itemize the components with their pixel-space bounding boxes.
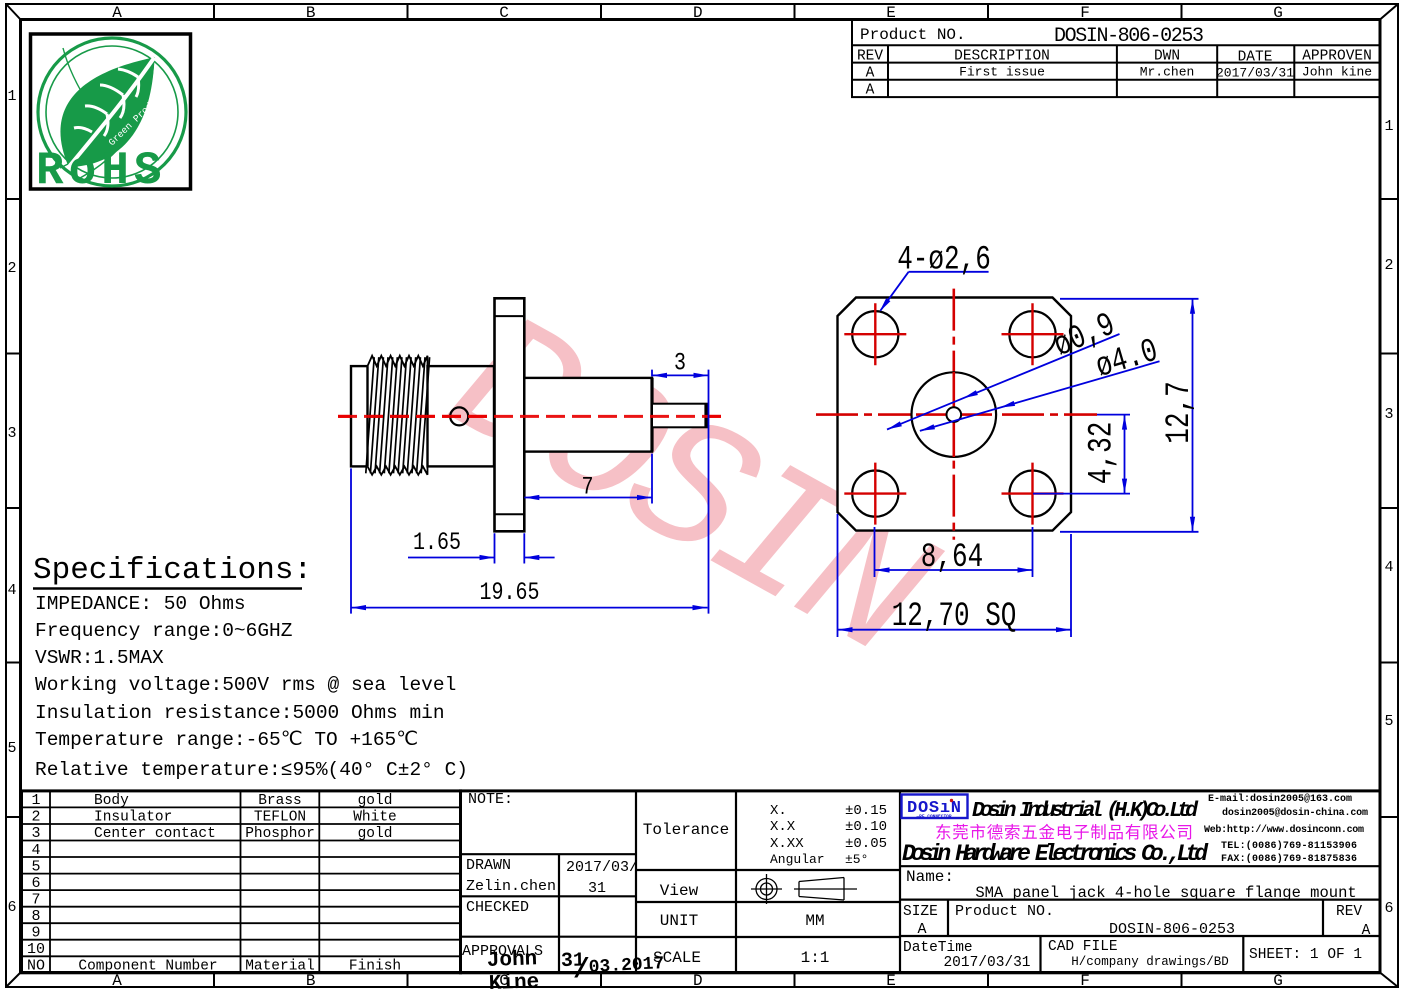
- front view vertical centerline: [952, 289, 955, 540]
- svg-text:3: 3: [7, 425, 16, 442]
- svg-text:A: A: [112, 4, 122, 22]
- front view flange square: [838, 298, 1072, 531]
- svg-text:Dosin Hardware Electronics Co.: Dosin Hardware Electronics Co.,Ltd: [902, 841, 1209, 867]
- svg-text:B: B: [306, 4, 316, 22]
- svg-text:Brass: Brass: [258, 793, 302, 809]
- svg-text:5: 5: [1384, 713, 1393, 730]
- approvals signature John Kine: [486, 948, 664, 996]
- svg-text:3: 3: [1384, 406, 1393, 423]
- svg-text:4: 4: [7, 582, 16, 599]
- svg-text:Component Number: Component Number: [78, 959, 217, 975]
- svg-text:Working voltage:500V rms @ sea: Working voltage:500V rms @ sea level: [35, 674, 456, 696]
- svg-text:±0.15: ±0.15: [845, 803, 887, 819]
- svg-text:NOTE:: NOTE:: [468, 791, 513, 808]
- svg-text:REV: REV: [857, 49, 883, 65]
- svg-text:gold: gold: [358, 793, 393, 809]
- svg-text:Dosin Industrial (H.K)Co.Ltd: Dosin Industrial (H.K)Co.Ltd: [972, 799, 1199, 823]
- dimension 7 (cylinder length): [524, 454, 652, 504]
- svg-text:4: 4: [1384, 559, 1393, 576]
- svg-text:31: 31: [588, 880, 606, 897]
- svg-text:1.65: 1.65: [413, 528, 461, 557]
- front view horizontal centerline: [816, 413, 1097, 416]
- dimension 12,7 (flange height): [1060, 299, 1199, 532]
- svg-text:John: John: [486, 948, 537, 973]
- svg-text:First issue: First issue: [959, 65, 1045, 80]
- side view thread flank hatch lines: [366, 357, 430, 473]
- svg-text:1: 1: [7, 88, 16, 105]
- svg-text:D: D: [693, 972, 703, 990]
- svg-text:Specifications:: Specifications:: [33, 553, 312, 588]
- RoHS logo rings: [38, 38, 186, 186]
- svg-text:5: 5: [31, 858, 40, 875]
- parts list table: [22, 791, 461, 973]
- svg-text:2: 2: [1384, 257, 1393, 274]
- svg-text:Phosphor: Phosphor: [245, 826, 315, 842]
- svg-text:7: 7: [31, 891, 40, 908]
- RoHS logo box: [31, 34, 191, 189]
- svg-text:E: E: [886, 972, 896, 990]
- svg-text:2017/03/: 2017/03/: [566, 859, 638, 876]
- svg-text:±0.10: ±0.10: [845, 819, 887, 835]
- svg-text:FAX:(0086)769-81875836: FAX:(0086)769-81875836: [1221, 853, 1357, 865]
- svg-text:TEFLON: TEFLON: [254, 810, 306, 826]
- svg-text:4-ø2,6: 4-ø2,6: [897, 242, 991, 280]
- svg-text:1:1: 1:1: [801, 949, 830, 967]
- svg-text:Body: Body: [94, 793, 129, 809]
- revision title block: [852, 20, 1380, 97]
- svg-text:Product NO.: Product NO.: [955, 903, 1054, 920]
- svg-text:Finish: Finish: [349, 959, 401, 975]
- svg-text:TEL:(0086)769-81153906: TEL:(0086)769-81153906: [1221, 840, 1357, 852]
- svg-text:Angular: Angular: [770, 852, 825, 867]
- svg-text:±5°: ±5°: [845, 852, 868, 867]
- svg-text:Name:: Name:: [906, 868, 954, 886]
- svg-text:3: 3: [31, 825, 40, 842]
- svg-text:19.65: 19.65: [480, 578, 540, 607]
- svg-text:DOSIN-806-0253: DOSIN-806-0253: [1054, 25, 1204, 48]
- svg-text:DWN: DWN: [1154, 49, 1180, 65]
- side view rear cylinder: [524, 378, 652, 452]
- svg-text:DOSIN-806-0253: DOSIN-806-0253: [1109, 921, 1235, 938]
- svg-text:10: 10: [27, 941, 45, 958]
- watermark DOSIN script: [416, 277, 961, 707]
- svg-text:X.X: X.X: [770, 819, 796, 835]
- svg-text:SMA panel jack 4-hole square f: SMA panel jack 4-hole square flange moun…: [975, 884, 1356, 902]
- svg-text:9: 9: [31, 925, 40, 942]
- side view left end cap: [351, 366, 368, 466]
- RoHS leaf side veins: [74, 69, 139, 136]
- side view centerline overlay: [338, 415, 723, 418]
- side view centerline: [338, 415, 723, 418]
- svg-text:SHEET: 1 OF 1: SHEET: 1 OF 1: [1249, 947, 1362, 963]
- DOSIN logo: [902, 795, 968, 819]
- svg-text:Product NO.: Product NO.: [860, 26, 966, 44]
- svg-text:DRAWN: DRAWN: [466, 857, 511, 874]
- svg-text:6: 6: [1384, 900, 1393, 917]
- RoHS leaf: [60, 57, 154, 167]
- dimension 1.65 (flange thickness): [408, 533, 555, 563]
- third angle projection symbol: [751, 874, 857, 904]
- svg-text:A: A: [917, 921, 926, 938]
- svg-text:Zelin.chen: Zelin.chen: [466, 878, 556, 895]
- dimension 8,64 (hole spacing): [875, 527, 1033, 577]
- mounting hole 1: [852, 311, 898, 357]
- side view center pin: [652, 404, 708, 428]
- svg-text:/: /: [573, 955, 590, 986]
- svg-text:Mr.chen: Mr.chen: [1140, 65, 1195, 80]
- svg-text:DateTime: DateTime: [903, 940, 973, 956]
- dimension 12,70 SQ (flange width): [838, 514, 1072, 637]
- svg-text:gold: gold: [358, 826, 393, 842]
- RoHS logo inner arcs: [60, 48, 154, 178]
- svg-text:dosin2005@dosin-china.com: dosin2005@dosin-china.com: [1222, 807, 1368, 819]
- zone tick marks left/right: [6, 199, 1398, 817]
- svg-text:Material: Material: [245, 959, 315, 975]
- svg-text:Kine: Kine: [488, 971, 539, 992]
- svg-text:D: D: [693, 4, 703, 22]
- front view body circle: [912, 372, 997, 457]
- side view solder hole: [450, 407, 468, 425]
- svg-text:DESCRIPTION: DESCRIPTION: [954, 49, 1050, 65]
- svg-text:APPROVEN: APPROVEN: [1302, 49, 1372, 65]
- svg-text:4,32: 4,32: [1084, 422, 1122, 484]
- svg-text:X.XX: X.XX: [770, 836, 804, 852]
- side view thread crests: [368, 356, 428, 366]
- dimension 19.65 (overall length): [351, 468, 708, 613]
- mounting hole 2: [1009, 311, 1055, 357]
- svg-text:Insulator: Insulator: [94, 810, 172, 826]
- title block bottom: frame: [461, 791, 1381, 973]
- svg-text:Relative temperature:≤95%(40°: Relative temperature:≤95%(40° C±2° C): [35, 759, 468, 781]
- svg-text:REV: REV: [1336, 904, 1362, 920]
- svg-text:A: A: [1362, 923, 1371, 939]
- svg-text:H/company drawings/BD: H/company drawings/BD: [1071, 955, 1229, 969]
- svg-text:C: C: [499, 4, 509, 22]
- svg-text:2: 2: [7, 260, 16, 277]
- svg-text:SIZE: SIZE: [903, 904, 938, 920]
- svg-text:A: A: [866, 83, 875, 99]
- svg-text:E-mail:dosin2005@163.com: E-mail:dosin2005@163.com: [1208, 793, 1352, 805]
- dimension 3 (pin length): [652, 370, 709, 614]
- svg-text:CAD FILE: CAD FILE: [1048, 939, 1118, 955]
- svg-text:View: View: [660, 882, 699, 900]
- RoHS leaf main vein: [69, 57, 155, 167]
- side view flange plate: [495, 298, 525, 531]
- svg-text:John kine: John kine: [1302, 65, 1372, 80]
- svg-text:CHECKED: CHECKED: [466, 899, 529, 916]
- svg-text:4: 4: [31, 842, 40, 859]
- svg-text:A: A: [112, 972, 122, 990]
- svg-text:F: F: [1080, 972, 1090, 990]
- svg-text:IMPEDANCE: 50 Ohms: IMPEDANCE: 50 Ohms: [35, 593, 246, 615]
- side view hex body: [428, 366, 495, 466]
- label 4-diam 2,6 with leader: [881, 272, 989, 311]
- svg-text:MM: MM: [805, 912, 824, 930]
- svg-text:东莞市德索五金电子制品有限公司: 东莞市德索五金电子制品有限公司: [935, 823, 1193, 843]
- label diam 4.0 with leader: [920, 361, 1160, 431]
- svg-text:Web:http://www.dosinconn.com: Web:http://www.dosinconn.com: [1204, 824, 1364, 836]
- mounting hole 4: [1009, 471, 1055, 517]
- svg-text:A: A: [866, 66, 875, 82]
- svg-text:Tolerance: Tolerance: [643, 821, 729, 839]
- svg-text:X.: X.: [770, 803, 787, 819]
- svg-text:2: 2: [31, 809, 40, 826]
- svg-text:1: 1: [1384, 118, 1393, 135]
- svg-text:2017/03/31: 2017/03/31: [1216, 66, 1294, 81]
- svg-text:3: 3: [674, 349, 686, 378]
- mounting hole 3: [852, 471, 898, 517]
- svg-text:UNIT: UNIT: [660, 912, 698, 930]
- svg-text:±0.05: ±0.05: [845, 836, 887, 852]
- svg-text:8,64: 8,64: [921, 539, 983, 577]
- svg-text:SCALE: SCALE: [653, 949, 701, 967]
- svg-text:G: G: [1273, 972, 1283, 990]
- svg-text:6: 6: [31, 875, 40, 892]
- svg-text:8: 8: [31, 908, 40, 925]
- svg-text:White: White: [353, 810, 397, 826]
- svg-text:2017/03/31: 2017/03/31: [943, 955, 1030, 971]
- company contacts: [1204, 793, 1368, 865]
- svg-text:7: 7: [582, 473, 594, 502]
- svg-text:DATE: DATE: [1238, 50, 1273, 66]
- front view pin circle: [947, 407, 962, 422]
- svg-text:—RF CONNECTOR: —RF CONNECTOR: [915, 814, 951, 820]
- label diam 0,9 with leader: [887, 334, 1120, 430]
- svg-text:Center contact: Center contact: [94, 826, 216, 842]
- svg-text:Frequency range:0~6GHZ: Frequency range:0~6GHZ: [35, 620, 292, 642]
- front view vertical centerline inner: [952, 372, 955, 457]
- svg-text:5: 5: [7, 740, 16, 757]
- svg-text:1: 1: [31, 792, 40, 809]
- svg-text:6: 6: [7, 899, 16, 916]
- svg-text:B: B: [306, 972, 316, 990]
- zone tick marks top/bottom: [214, 4, 1182, 987]
- svg-text:Insulation resistance:5000 Ohm: Insulation resistance:5000 Ohms min: [35, 702, 445, 724]
- svg-text:NO: NO: [27, 958, 45, 975]
- svg-text:12,70 SQ: 12,70 SQ: [892, 598, 1017, 636]
- svg-text:Temperature range:-65℃ TO +165: Temperature range:-65℃ TO +165℃: [35, 729, 418, 751]
- svg-text:RoHS: RoHS: [36, 145, 166, 197]
- svg-text:VSWR:1.5MAX: VSWR:1.5MAX: [35, 647, 164, 669]
- dimension 4,32 (hole offset): [1033, 415, 1130, 494]
- svg-text:12,7: 12,7: [1161, 381, 1199, 443]
